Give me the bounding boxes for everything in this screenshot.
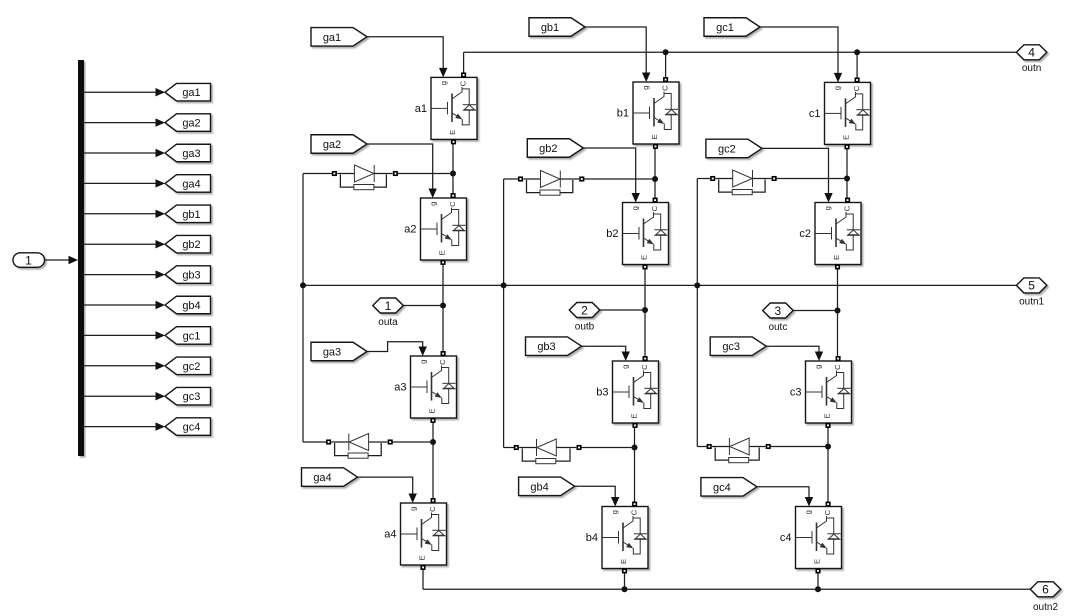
svg-text:C: C bbox=[823, 509, 832, 515]
wire From gb2 to b2 gate bbox=[583, 148, 640, 203]
junction neutral rail phase a bbox=[300, 282, 306, 288]
wire a2 emitter to a3 collector (phase output trunk) bbox=[442, 261, 444, 355]
wire neutral rail to lower clamp Dc2 bbox=[697, 446, 709, 448]
wire c4 emitter to bottom rail bbox=[817, 570, 819, 590]
neutral rail stub phase a bbox=[302, 174, 304, 443]
svg-text:b4: b4 bbox=[586, 532, 598, 544]
svg-text:E: E bbox=[823, 413, 832, 418]
From tag ga3 bbox=[311, 342, 367, 361]
svg-text:ga3: ga3 bbox=[182, 148, 200, 160]
wire neutral rail (outn1 bus) bbox=[303, 284, 1016, 286]
wire From ga4 to a4 gate bbox=[358, 477, 417, 503]
output port outn1 (5) bbox=[1016, 278, 1046, 308]
junction node a12 (upper clamp) bbox=[450, 171, 456, 177]
From tag ga4 bbox=[302, 468, 358, 487]
svg-text:outn: outn bbox=[1022, 63, 1041, 74]
svg-text:c2: c2 bbox=[799, 228, 811, 240]
From tag gc1 bbox=[704, 18, 760, 37]
svg-text:ga4: ga4 bbox=[313, 472, 331, 484]
clamp diode Db1 (with snubber R) bbox=[519, 171, 584, 196]
IGBT/Diode block a4 bbox=[384, 499, 446, 569]
IGBT/Diode block c3 bbox=[790, 357, 852, 427]
svg-text:gc3: gc3 bbox=[722, 341, 740, 353]
IGBT/Diode block c4 bbox=[780, 502, 842, 572]
svg-text:gc1: gc1 bbox=[716, 22, 734, 34]
svg-text:1: 1 bbox=[385, 299, 392, 313]
clamp diode Da1 (with snubber R) bbox=[333, 165, 398, 190]
input port In1 (1) bbox=[13, 253, 45, 267]
svg-text:C: C bbox=[428, 506, 437, 512]
wire c1 emitter to c2 collector bbox=[846, 145, 848, 201]
svg-text:gb3: gb3 bbox=[182, 270, 200, 282]
svg-text:b1: b1 bbox=[617, 108, 629, 120]
Goto tag ga2 bbox=[165, 114, 211, 132]
demux bus selector bar bbox=[78, 60, 84, 456]
wire a3 emitter to a4 collector bbox=[432, 419, 434, 502]
output port outb (2) bbox=[569, 303, 599, 333]
wire b1 collector to top rail bbox=[665, 52, 667, 82]
From tag gb4 bbox=[519, 477, 575, 496]
IGBT/Diode block b4 bbox=[586, 502, 648, 572]
svg-text:E: E bbox=[832, 255, 841, 260]
junction node c34 (lower clamp) bbox=[825, 444, 831, 450]
svg-text:gb4: gb4 bbox=[530, 481, 548, 493]
clamp diode Dc2 (with snubber R) bbox=[707, 438, 770, 463]
clamp diode Dc1 (with snubber R) bbox=[711, 170, 776, 195]
svg-text:outn2: outn2 bbox=[1033, 602, 1058, 613]
svg-text:ga2: ga2 bbox=[182, 118, 200, 130]
Goto tag gc3 bbox=[165, 387, 211, 405]
neutral rail stub phase b bbox=[503, 179, 505, 448]
svg-text:outc: outc bbox=[768, 322, 787, 333]
svg-text:c1: c1 bbox=[809, 108, 821, 120]
svg-text:a4: a4 bbox=[384, 529, 396, 541]
output port outn2 (6) bbox=[1030, 582, 1060, 613]
wire demux to Goto ga1 bbox=[84, 88, 165, 96]
svg-text:E: E bbox=[650, 134, 659, 139]
From tag gb3 bbox=[526, 337, 582, 356]
svg-text:ga3: ga3 bbox=[323, 347, 341, 359]
svg-text:g: g bbox=[833, 86, 842, 90]
svg-text:gc1: gc1 bbox=[183, 330, 201, 342]
wire neutral rail to upper clamp Db1 bbox=[504, 178, 521, 180]
IGBT/Diode block b3 bbox=[596, 357, 658, 427]
wire lower clamp Db2 to node b34 bbox=[579, 447, 635, 449]
wire demux to Goto ga2 bbox=[84, 118, 165, 126]
Goto tag ga1 bbox=[165, 83, 211, 101]
wire bottom rail (outn2 bus) bbox=[423, 588, 1030, 590]
wire From gc2 to c2 gate bbox=[762, 148, 833, 202]
svg-text:6: 6 bbox=[1042, 583, 1049, 597]
IGBT/Diode block b2 bbox=[606, 198, 668, 268]
svg-text:a2: a2 bbox=[404, 224, 416, 236]
svg-text:gb3: gb3 bbox=[537, 341, 555, 353]
svg-text:outb: outb bbox=[575, 322, 595, 333]
svg-text:C: C bbox=[448, 201, 457, 207]
svg-text:g: g bbox=[641, 86, 650, 90]
wire From gc3 to c3 gate bbox=[766, 346, 823, 361]
svg-text:E: E bbox=[842, 135, 851, 140]
svg-text:outa: outa bbox=[378, 317, 398, 328]
svg-text:gb1: gb1 bbox=[182, 209, 200, 221]
svg-text:ga1: ga1 bbox=[323, 32, 341, 44]
wire demux to Goto gb4 bbox=[84, 301, 165, 309]
svg-text:C: C bbox=[438, 359, 447, 365]
Goto tag gc4 bbox=[165, 418, 211, 436]
wire outc to phase c trunk bbox=[793, 310, 838, 312]
wire lower clamp Dc2 to node c34 bbox=[768, 446, 828, 448]
IGBT/Diode block a1 bbox=[415, 73, 477, 143]
svg-text:E: E bbox=[813, 559, 822, 564]
junction neutral rail phase b bbox=[501, 282, 507, 288]
output port outn (4) bbox=[1016, 45, 1046, 74]
From tag gb1 bbox=[529, 18, 585, 37]
svg-text:ga1: ga1 bbox=[182, 87, 200, 99]
clamp diode Db2 (with snubber R) bbox=[515, 439, 581, 464]
wire a4 emitter to bottom rail bbox=[422, 566, 424, 589]
Goto tag gc2 bbox=[165, 357, 211, 375]
svg-text:gc4: gc4 bbox=[713, 482, 731, 494]
svg-text:g: g bbox=[621, 365, 630, 369]
svg-text:a3: a3 bbox=[394, 382, 406, 394]
Goto tag gb1 bbox=[165, 205, 211, 223]
IGBT/Diode block a2 bbox=[404, 194, 466, 264]
wire neutral rail to upper clamp Da1 bbox=[303, 173, 334, 175]
svg-text:g: g bbox=[409, 507, 418, 511]
junction top rail / b1 collector bbox=[663, 49, 669, 55]
wire demux to Goto gb3 bbox=[84, 270, 165, 278]
Goto tag gb2 bbox=[165, 235, 211, 253]
wire upper clamp Da1 to node a12 bbox=[395, 173, 453, 175]
svg-text:g: g bbox=[610, 510, 619, 514]
wire From ga2 to a2 gate bbox=[367, 144, 437, 198]
wire demux to Goto ga4 bbox=[84, 179, 165, 187]
junction phase output outc bbox=[835, 308, 841, 314]
IGBT/Diode block a3 bbox=[394, 352, 456, 422]
wire neutral rail to lower clamp Da2 bbox=[303, 441, 329, 443]
wire From gc4 to c4 gate bbox=[757, 487, 813, 507]
wire top rail (outn bus) bbox=[464, 51, 1017, 53]
junction node b34 (lower clamp) bbox=[632, 445, 638, 451]
svg-text:C: C bbox=[458, 80, 467, 86]
svg-text:gc4: gc4 bbox=[183, 422, 201, 434]
neutral rail stub phase c bbox=[696, 179, 698, 447]
svg-text:gc2: gc2 bbox=[183, 361, 201, 373]
svg-text:E: E bbox=[619, 559, 628, 564]
wire demux to Goto gc1 bbox=[84, 331, 165, 339]
Goto tag gb4 bbox=[165, 296, 211, 314]
junction phase output outb bbox=[642, 307, 648, 313]
wire lower clamp Da2 to node a34 bbox=[390, 441, 433, 443]
svg-text:3: 3 bbox=[775, 304, 782, 318]
svg-text:g: g bbox=[419, 360, 428, 364]
svg-text:g: g bbox=[631, 206, 640, 210]
svg-text:g: g bbox=[823, 206, 832, 210]
wire a1 emitter to a2 collector bbox=[452, 140, 454, 197]
wire c1 collector to top rail bbox=[856, 52, 858, 82]
wire In1 to demux bbox=[45, 256, 79, 264]
svg-text:b2: b2 bbox=[606, 228, 618, 240]
svg-text:E: E bbox=[438, 250, 447, 255]
svg-text:ga2: ga2 bbox=[323, 139, 341, 151]
svg-text:C: C bbox=[629, 509, 638, 515]
From tag gb2 bbox=[527, 139, 583, 158]
svg-text:ga4: ga4 bbox=[182, 178, 200, 190]
junction bottom rail / c4 emitter bbox=[815, 586, 821, 592]
svg-text:C: C bbox=[842, 205, 851, 211]
junction bottom rail / b4 emitter bbox=[622, 586, 628, 592]
svg-text:C: C bbox=[833, 364, 842, 370]
svg-text:g: g bbox=[429, 202, 438, 206]
From tag gc3 bbox=[710, 337, 766, 356]
svg-text:C: C bbox=[852, 85, 861, 91]
wire demux to Goto gc2 bbox=[84, 362, 165, 370]
wire demux to Goto ga3 bbox=[84, 149, 165, 157]
svg-text:C: C bbox=[660, 85, 669, 91]
svg-text:4: 4 bbox=[1028, 46, 1035, 60]
wire b3 emitter to b4 collector bbox=[634, 424, 636, 506]
wire b2 emitter to b3 collector (phase output trunk) bbox=[644, 266, 646, 361]
svg-text:gb2: gb2 bbox=[182, 239, 200, 251]
wire c2 emitter to c3 collector (phase output trunk) bbox=[837, 266, 839, 361]
svg-text:C: C bbox=[640, 364, 649, 370]
svg-text:gc2: gc2 bbox=[718, 143, 736, 155]
wire outa to phase a trunk bbox=[403, 305, 443, 307]
svg-text:E: E bbox=[428, 408, 437, 413]
junction phase output outa bbox=[440, 303, 446, 309]
Goto tag ga4 bbox=[165, 175, 211, 193]
wire From gb1 to b1 gate bbox=[585, 27, 650, 82]
svg-text:a1: a1 bbox=[415, 103, 427, 115]
junction node b12 (upper clamp) bbox=[652, 176, 658, 182]
Goto tag ga3 bbox=[165, 144, 211, 162]
svg-text:2: 2 bbox=[581, 303, 588, 317]
wire demux to Goto gb1 bbox=[84, 210, 165, 218]
wire upper clamp Db1 to node b12 bbox=[582, 178, 655, 180]
wire upper clamp Dc1 to node c12 bbox=[774, 178, 847, 180]
wire neutral rail to lower clamp Db2 bbox=[504, 447, 517, 449]
From tag ga1 bbox=[311, 28, 367, 47]
svg-text:E: E bbox=[630, 413, 639, 418]
svg-text:E: E bbox=[448, 130, 457, 135]
svg-text:b3: b3 bbox=[596, 387, 608, 399]
svg-text:c3: c3 bbox=[790, 387, 802, 399]
clamp diode Da2 (with snubber R) bbox=[327, 434, 392, 459]
wire demux to Goto gb2 bbox=[84, 240, 165, 248]
junction top rail / c1 collector bbox=[854, 49, 860, 55]
From tag ga2 bbox=[311, 135, 367, 154]
svg-text:E: E bbox=[640, 255, 649, 260]
svg-text:gc3: gc3 bbox=[183, 391, 201, 403]
svg-text:5: 5 bbox=[1028, 279, 1035, 293]
wire neutral rail to upper clamp Dc1 bbox=[697, 178, 712, 180]
From tag gc2 bbox=[706, 139, 762, 158]
wire From gb4 to b4 gate bbox=[575, 486, 620, 506]
svg-text:E: E bbox=[418, 555, 427, 560]
svg-text:g: g bbox=[439, 81, 448, 85]
wire c3 emitter to c4 collector bbox=[827, 424, 829, 506]
wire From gb3 to b3 gate bbox=[582, 346, 630, 361]
svg-text:C: C bbox=[650, 205, 659, 211]
wire b4 emitter to bottom rail bbox=[624, 570, 626, 590]
svg-text:c4: c4 bbox=[780, 532, 792, 544]
junction node c12 (upper clamp) bbox=[844, 176, 850, 182]
IGBT/Diode block b1 bbox=[617, 78, 679, 148]
svg-text:gb2: gb2 bbox=[539, 143, 557, 155]
junction neutral rail phase c bbox=[694, 282, 700, 288]
Goto tag gc1 bbox=[165, 327, 211, 345]
svg-text:g: g bbox=[814, 365, 823, 369]
svg-text:gb4: gb4 bbox=[182, 300, 200, 312]
wire From ga3 to a3 gate bbox=[367, 342, 427, 356]
output port outa (1) bbox=[373, 298, 403, 328]
wire outb to phase b trunk bbox=[600, 309, 646, 311]
wire b1 emitter to b2 collector bbox=[654, 145, 656, 202]
IGBT/Diode block c1 bbox=[809, 78, 871, 148]
wire a1 collector to top rail bbox=[463, 52, 465, 77]
svg-text:gb1: gb1 bbox=[541, 22, 559, 34]
svg-text:1: 1 bbox=[25, 253, 32, 267]
output port outc (3) bbox=[763, 303, 793, 333]
svg-text:outn1: outn1 bbox=[1019, 297, 1044, 308]
svg-text:g: g bbox=[804, 510, 813, 514]
Goto tag gb3 bbox=[165, 266, 211, 284]
junction node a34 (lower clamp) bbox=[430, 439, 436, 445]
wire From ga1 to a1 gate bbox=[367, 37, 447, 78]
IGBT/Diode block c2 bbox=[799, 198, 861, 268]
wire demux to Goto gc3 bbox=[84, 392, 165, 400]
From tag gc4 bbox=[701, 478, 757, 497]
wire From gc1 to c1 gate bbox=[760, 27, 842, 82]
wire demux to Goto gc4 bbox=[84, 422, 165, 430]
